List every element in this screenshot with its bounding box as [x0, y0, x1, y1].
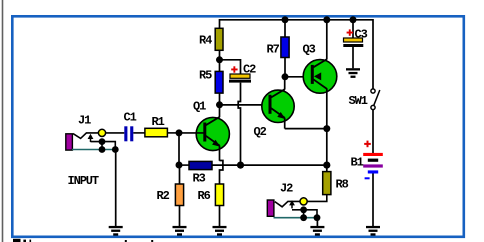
svg-text:Q2: Q2: [254, 125, 267, 139]
svg-text:C2: C2: [243, 62, 256, 76]
svg-text:J2: J2: [280, 182, 293, 196]
wire: R4/R5/C2 node to C2 top: [220, 60, 241, 74]
node R1 / Q1 base: [176, 129, 183, 136]
wire: J2 tip-switch link: [303, 210, 305, 218]
wire: J2 sleeve line (teal): [274, 217, 318, 219]
node C2 / feedback: [237, 162, 244, 169]
svg-text:R5: R5: [199, 69, 212, 83]
resistor R8: [307, 165, 331, 201]
node J2 a: [300, 206, 307, 213]
transistor Q2: [262, 77, 294, 129]
node R3 / R2: [176, 162, 183, 169]
ground under J2: [310, 226, 324, 236]
jack J1 tip contact and wire to C1: [73, 129, 124, 138]
polarity + of C2: [231, 66, 237, 72]
wire: J2 down to ground: [316, 218, 318, 226]
polarity + of C3: [347, 29, 353, 35]
node rail / Q3 collector: [323, 16, 330, 23]
svg-text:C1: C1: [124, 110, 137, 124]
svg-text:INPUT: INPUT: [68, 174, 99, 188]
polarity - of B1: [365, 177, 370, 179]
resistor R2: [175, 165, 183, 226]
polarity + of B1: [364, 141, 371, 148]
wire: +V top rail: [220, 20, 374, 89]
svg-text:R2: R2: [157, 189, 170, 203]
node J1 a: [99, 138, 106, 145]
wire: Q1 collector node to Q2 base: [220, 104, 272, 106]
svg-text:B1: B1: [351, 155, 364, 169]
transistor Q1: [196, 105, 229, 161]
ground under R2: [173, 226, 187, 236]
wire: J1 down to ground: [115, 150, 117, 227]
wire: base node to Q1: [179, 132, 204, 134]
svg-text:R4: R4: [199, 33, 212, 47]
svg-text:R8: R8: [336, 177, 349, 191]
svg-text:Q3: Q3: [303, 42, 316, 56]
wire: J1 tip-switch link: [101, 142, 103, 150]
wire: base node down to R3/R2 node: [178, 133, 180, 165]
wire: Q1 emitter hop over feedback line: [220, 161, 223, 185]
capacitor C2: [229, 74, 251, 165]
svg-text:R3: R3: [193, 171, 206, 185]
capacitor C3: [343, 20, 363, 69]
ground under J1: [109, 226, 123, 236]
wire: J1 ring to ground corner: [91, 142, 116, 150]
node rail / R7: [282, 16, 289, 23]
node R7 / Q3 base / Q2 collector: [282, 73, 289, 80]
battery B1: [363, 153, 383, 226]
node rail / C3: [350, 16, 357, 23]
resistor R6: [215, 184, 223, 226]
window edge line (left gray): [2, 0, 4, 242]
wire: J1 sleeve line (teal): [72, 149, 115, 151]
svg-text:C3: C3: [355, 27, 368, 41]
wire: J2 ring to ground corner: [292, 210, 317, 218]
node J2 b: [300, 214, 307, 221]
ground under B1: [366, 226, 380, 236]
node J1 b: [99, 146, 106, 153]
wire: Q2 emitter to Q3 emitter line: [285, 128, 327, 130]
svg-text:SW1: SW1: [349, 94, 368, 108]
svg-text:Q1: Q1: [193, 100, 206, 114]
node J1 c: [112, 146, 119, 153]
node Q1 collector / R5 / Q2 base: [216, 101, 223, 108]
node R4/R5/C2: [216, 56, 223, 63]
svg-text:J1: J1: [78, 113, 91, 127]
jack J1 sleeve: [66, 134, 73, 150]
resistor R4: [215, 28, 223, 60]
jack J2 switch arrow: [289, 200, 295, 208]
svg-text:R1: R1: [152, 115, 165, 129]
jack J2 sleeve: [267, 200, 274, 216]
resistor R5: [215, 60, 223, 105]
jack J1 switch arrow: [88, 134, 94, 142]
resistor R3: [179, 161, 212, 169]
svg-text:R6: R6: [198, 189, 211, 203]
switch SW1: [371, 89, 380, 153]
transistor Q3 (PNP): [303, 20, 337, 165]
wire: node to Q3 base: [285, 76, 311, 78]
wire: feedback line R3 to R8 node: [212, 164, 327, 166]
node feedback / R8: [323, 162, 330, 169]
ground under C3: [346, 68, 360, 78]
node Q2/Q3 emitters: [323, 125, 330, 132]
clipped taskbar marks at bottom: [13, 239, 153, 242]
jack J2 tip contact: [275, 198, 307, 207]
ground under R6: [213, 226, 227, 236]
resistor R7: [281, 20, 289, 77]
svg-text:R7: R7: [267, 43, 280, 57]
capacitor C1: [124, 126, 145, 141]
resistor R1: [145, 128, 179, 137]
node J2 c: [314, 214, 321, 221]
